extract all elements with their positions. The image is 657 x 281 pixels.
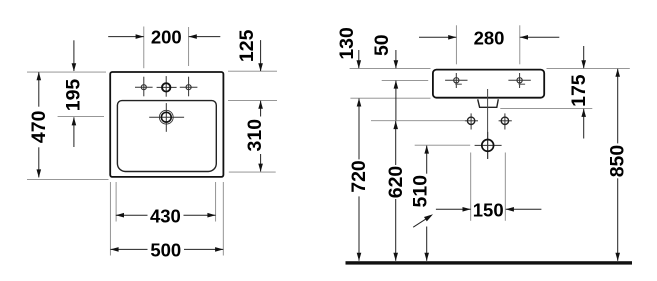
svg-text:310: 310 [244,119,266,152]
svg-text:500: 500 [150,240,181,261]
svg-text:280: 280 [474,27,505,48]
svg-text:720: 720 [348,160,370,193]
svg-text:125: 125 [236,29,258,62]
svg-text:200: 200 [151,27,182,48]
svg-text:850: 850 [606,145,628,178]
svg-text:50: 50 [371,34,393,56]
svg-text:150: 150 [473,199,504,220]
svg-text:175: 175 [568,74,590,107]
svg-text:130: 130 [336,27,358,60]
svg-text:195: 195 [62,79,84,112]
svg-text:620: 620 [385,166,407,199]
svg-text:430: 430 [150,205,181,226]
svg-text:510: 510 [409,175,431,208]
svg-text:470: 470 [28,110,50,143]
